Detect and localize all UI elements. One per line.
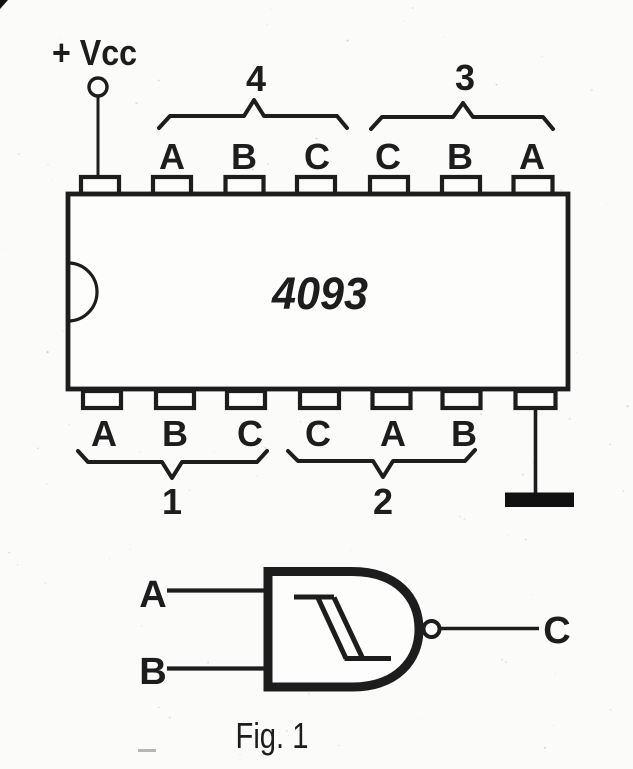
wire output C: [440, 627, 539, 631]
pin 12 (B, top): [226, 177, 264, 194]
pin 5 (A, bottom): [373, 391, 411, 408]
svg-text:C: C: [237, 413, 263, 454]
svg-text:2: 2: [373, 481, 393, 522]
brace gate 4: [159, 100, 347, 128]
brace gate 3: [371, 103, 553, 129]
pin 6 (B, bottom): [443, 391, 481, 408]
svg-text:3: 3: [455, 57, 475, 98]
svg-text:A: A: [519, 136, 545, 177]
pin 9 (B, top): [442, 177, 480, 194]
pin 8 (A, top): [514, 177, 553, 194]
IC U1 outline: [68, 194, 568, 389]
svg-text:B: B: [231, 136, 257, 177]
pin 4 (C, bottom): [300, 391, 339, 408]
inverter bubble: [424, 621, 440, 637]
svg-text:Fig. 1: Fig. 1: [236, 715, 309, 756]
power terminal Vcc: [89, 78, 107, 96]
svg-text:4: 4: [246, 58, 266, 99]
NAND gate U1a body: [268, 572, 419, 688]
pin 13 (A, top): [153, 177, 191, 194]
svg-text:C: C: [375, 136, 401, 177]
pin 10 (C, top): [370, 177, 408, 194]
pin 14 (Vcc, top): [81, 177, 119, 194]
brace gate 2: [288, 450, 475, 477]
svg-text:A: A: [380, 413, 406, 454]
wire input A: [167, 588, 270, 592]
svg-text:A: A: [159, 136, 185, 177]
svg-text:+ Vcc: + Vcc: [52, 32, 137, 73]
pin 2 (B, bottom): [156, 391, 194, 408]
svg-text:4093: 4093: [271, 268, 368, 319]
wire pin7 to ground: [534, 408, 538, 494]
wire input B: [167, 666, 270, 670]
wire Vcc to pin 14: [97, 97, 100, 180]
schmitt trigger hysteresis symbol: [294, 597, 391, 659]
svg-text:A: A: [139, 574, 166, 616]
svg-text:B: B: [139, 651, 166, 693]
svg-text:A: A: [91, 413, 117, 454]
IC notch: [68, 263, 97, 321]
brace gate 1: [78, 451, 267, 478]
scan artifact dash: [138, 749, 156, 752]
pin 7 (GND, bottom): [516, 391, 556, 408]
svg-text:B: B: [451, 413, 477, 454]
IC U1 body fill: [68, 194, 568, 389]
svg-text:C: C: [305, 413, 331, 454]
svg-text:B: B: [162, 413, 188, 454]
svg-text:C: C: [543, 610, 570, 652]
ground: [505, 493, 574, 508]
pin 3 (C, bottom): [227, 391, 265, 408]
pin 11 (C, top): [297, 177, 335, 194]
svg-text:C: C: [304, 136, 330, 177]
pin 1 (A, bottom): [83, 391, 121, 408]
svg-text:1: 1: [162, 481, 182, 522]
scan corner artifact: [0, 0, 8, 9]
svg-text:B: B: [447, 136, 473, 177]
